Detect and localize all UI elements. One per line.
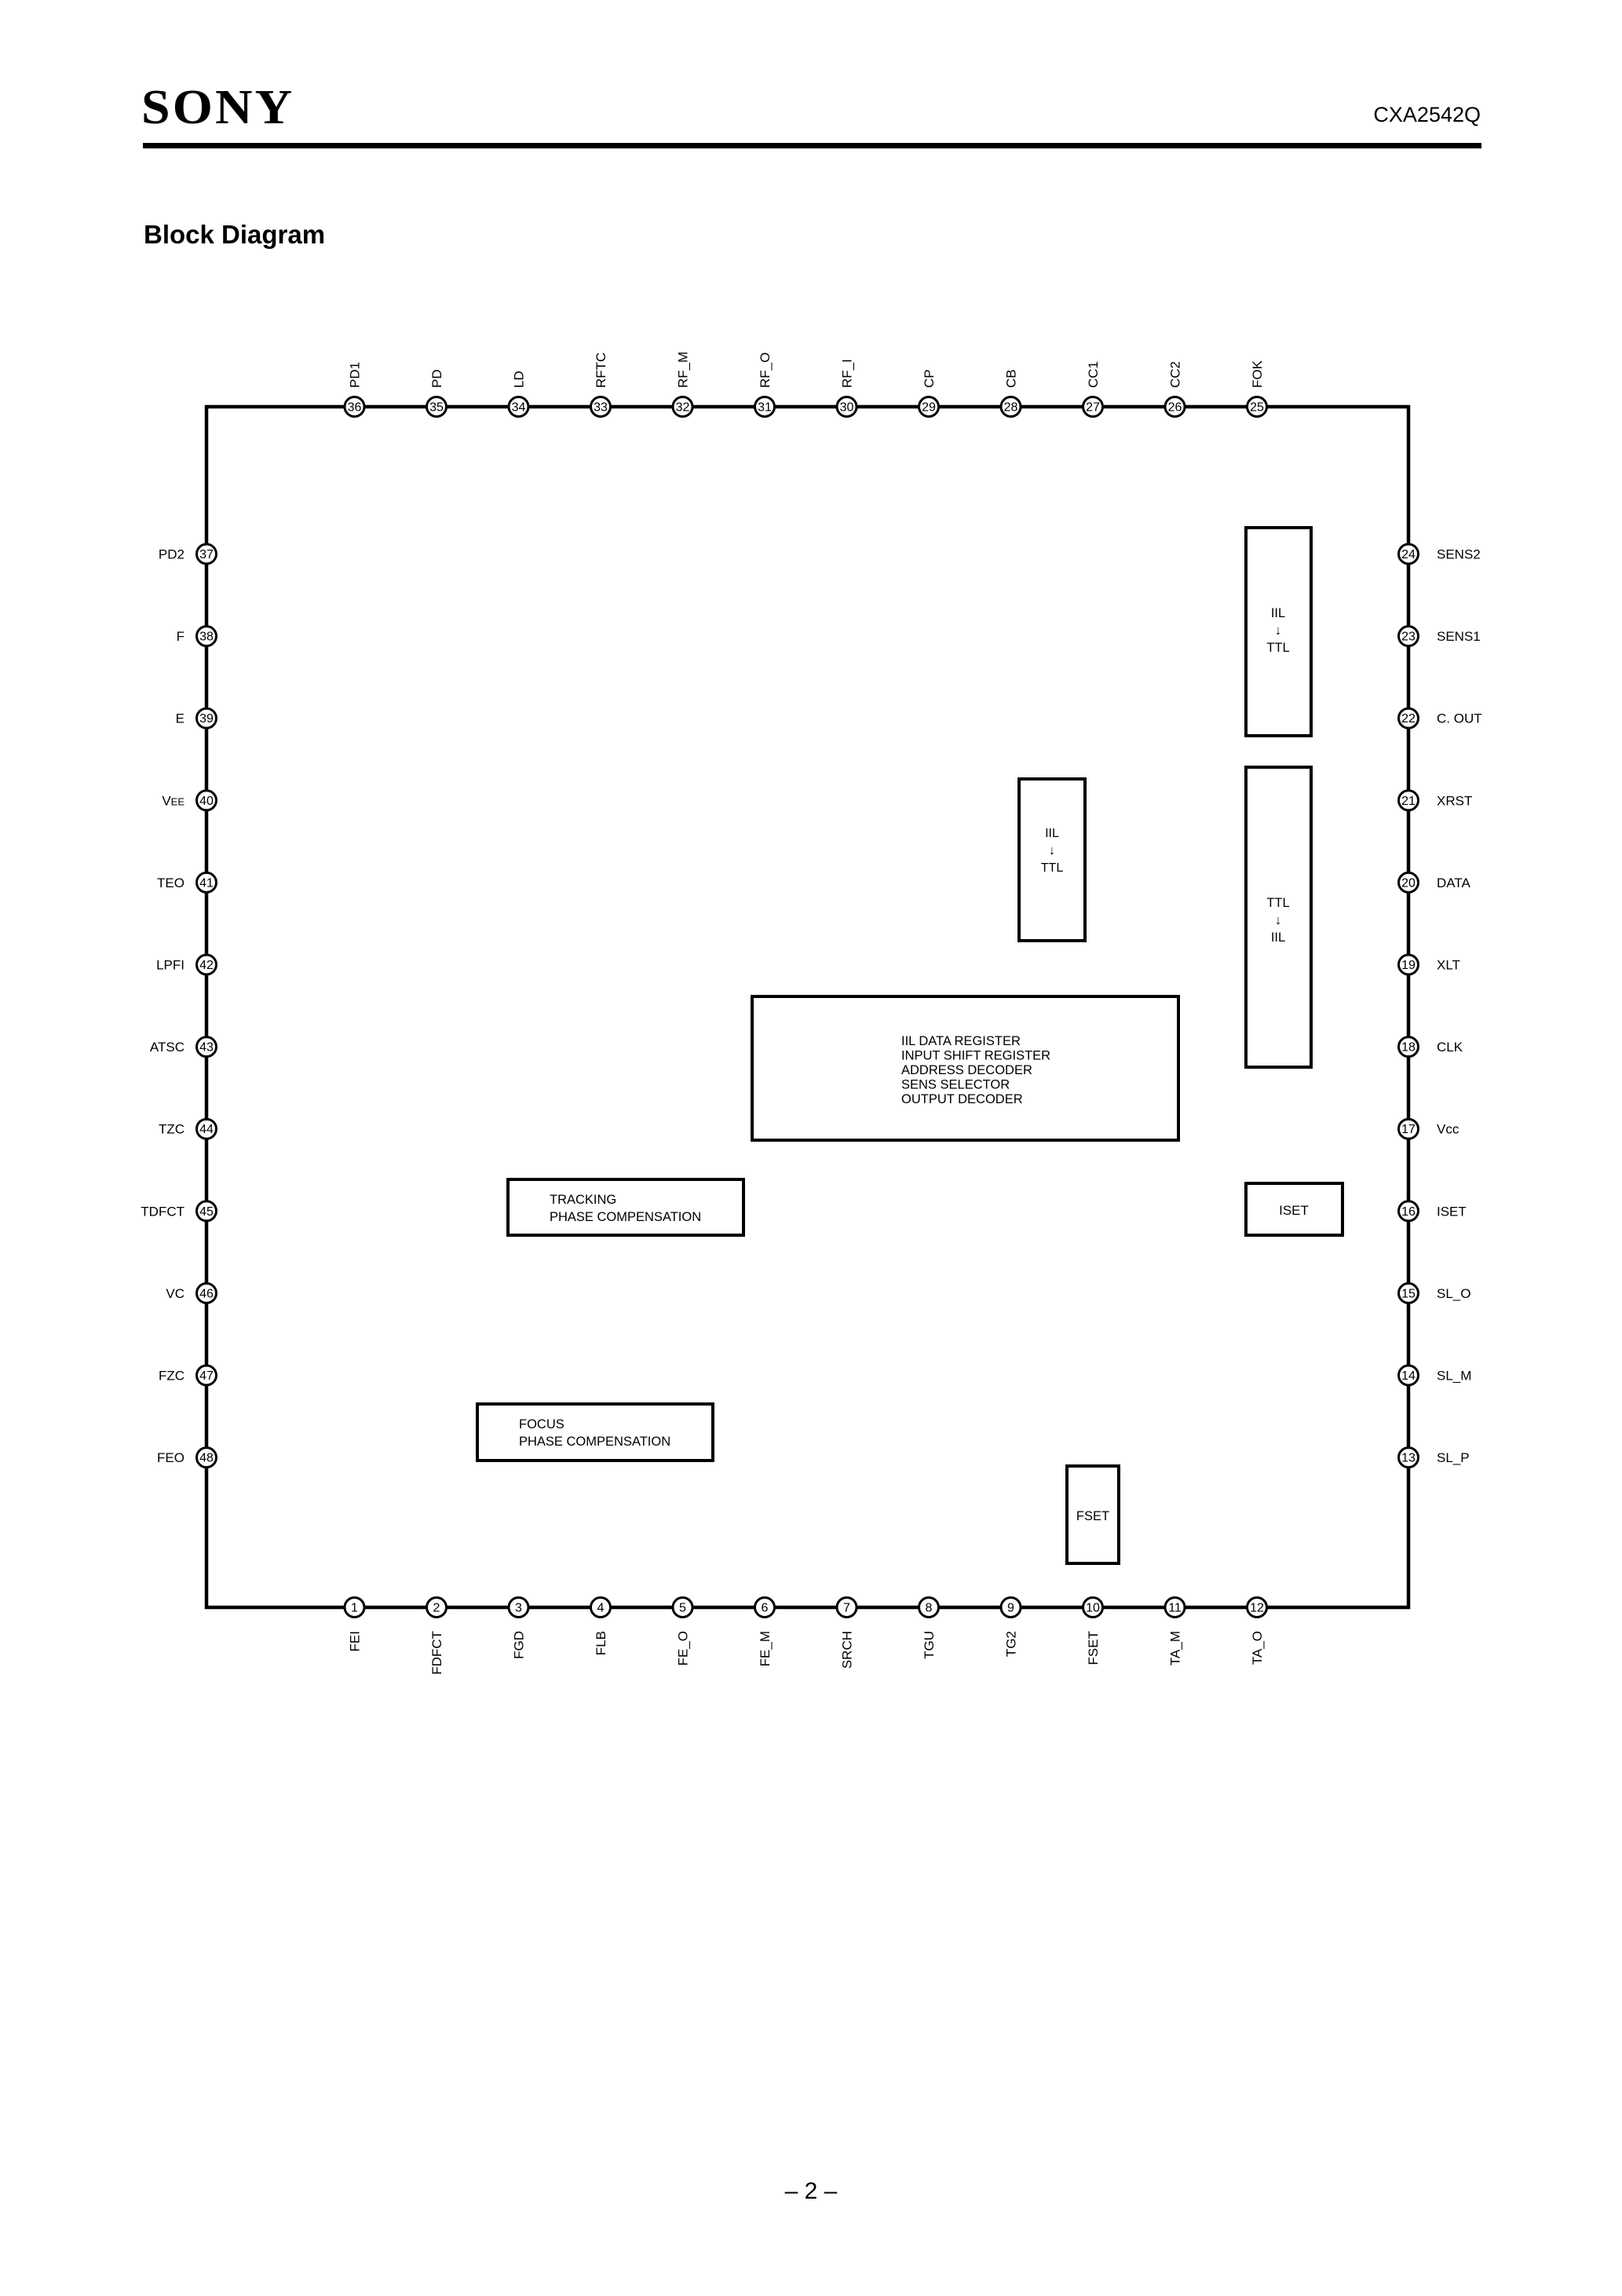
svg-text:44: 44 <box>199 1123 214 1136</box>
svg-text:CP: CP <box>922 369 937 388</box>
svg-text:CC2: CC2 <box>1168 361 1183 388</box>
svg-text:30: 30 <box>840 401 854 415</box>
svg-text:TRACKING: TRACKING <box>550 1193 616 1207</box>
svg-text:20: 20 <box>1401 876 1416 890</box>
svg-text:SRCH: SRCH <box>840 1631 855 1669</box>
svg-text:14: 14 <box>1401 1369 1416 1383</box>
svg-text:TA_M: TA_M <box>1168 1631 1183 1665</box>
svg-text:E: E <box>176 711 184 726</box>
svg-text:FSET: FSET <box>1076 1509 1109 1523</box>
svg-text:SENS SELECTOR: SENS SELECTOR <box>901 1078 1010 1092</box>
svg-text:ISET: ISET <box>1437 1204 1467 1219</box>
svg-text:LD: LD <box>512 371 527 388</box>
svg-text:39: 39 <box>199 712 214 726</box>
svg-text:10: 10 <box>1086 1602 1100 1615</box>
svg-text:4: 4 <box>597 1602 605 1615</box>
svg-text:PD1: PD1 <box>348 362 363 388</box>
svg-text:CB: CB <box>1004 369 1019 388</box>
svg-text:INPUT SHIFT REGISTER: INPUT SHIFT REGISTER <box>901 1049 1050 1063</box>
svg-text:CLK: CLK <box>1437 1040 1463 1055</box>
svg-text:RFTC: RFTC <box>594 353 608 388</box>
svg-text:48: 48 <box>199 1452 214 1465</box>
svg-text:ISET: ISET <box>1279 1203 1309 1218</box>
svg-text:27: 27 <box>1086 401 1100 415</box>
svg-text:C. OUT: C. OUT <box>1437 711 1482 726</box>
svg-text:2: 2 <box>433 1602 440 1615</box>
svg-text:FOCUS: FOCUS <box>519 1417 564 1431</box>
svg-text:↓: ↓ <box>1275 623 1281 638</box>
svg-text:TDFCT: TDFCT <box>141 1204 184 1219</box>
svg-text:SONY: SONY <box>141 80 294 134</box>
svg-text:IIL: IIL <box>1271 930 1285 945</box>
svg-text:RF_I: RF_I <box>840 359 855 388</box>
svg-text:12: 12 <box>1250 1602 1264 1615</box>
svg-text:31: 31 <box>758 401 772 415</box>
svg-text:VC: VC <box>166 1286 184 1301</box>
svg-text:TTL: TTL <box>1041 861 1064 875</box>
svg-text:25: 25 <box>1250 401 1264 415</box>
svg-text:FEI: FEI <box>348 1631 363 1651</box>
svg-text:DATA: DATA <box>1437 876 1470 890</box>
svg-text:FDFCT: FDFCT <box>429 1631 444 1675</box>
svg-text:26: 26 <box>1168 401 1182 415</box>
svg-text:34: 34 <box>512 401 526 415</box>
svg-text:FE_M: FE_M <box>758 1631 773 1666</box>
svg-text:PHASE COMPENSATION: PHASE COMPENSATION <box>519 1435 670 1449</box>
svg-text:FSET: FSET <box>1086 1631 1101 1665</box>
svg-text:FLB: FLB <box>594 1631 608 1655</box>
svg-text:36: 36 <box>348 401 362 415</box>
svg-text:Block Diagram: Block Diagram <box>144 220 325 249</box>
svg-text:5: 5 <box>679 1602 686 1615</box>
svg-text:3: 3 <box>515 1602 522 1615</box>
svg-text:SL_P: SL_P <box>1437 1450 1470 1465</box>
svg-text:PD: PD <box>429 369 444 388</box>
svg-text:24: 24 <box>1401 548 1416 561</box>
svg-text:FZC: FZC <box>159 1369 184 1384</box>
svg-text:13: 13 <box>1401 1452 1416 1465</box>
svg-text:– 2 –: – 2 – <box>785 2178 838 2204</box>
svg-text:40: 40 <box>199 795 214 808</box>
svg-text:OUTPUT DECODER: OUTPUT DECODER <box>901 1092 1023 1106</box>
svg-text:SL_O: SL_O <box>1437 1286 1470 1301</box>
svg-text:XRST: XRST <box>1437 793 1472 808</box>
svg-text:XLT: XLT <box>1437 958 1460 973</box>
svg-text:ATSC: ATSC <box>150 1040 184 1055</box>
svg-text:ADDRESS DECODER: ADDRESS DECODER <box>901 1063 1032 1077</box>
svg-text:TG2: TG2 <box>1004 1631 1019 1657</box>
svg-text:TGU: TGU <box>922 1631 937 1659</box>
svg-text:29: 29 <box>922 401 936 415</box>
svg-text:21: 21 <box>1401 795 1416 808</box>
svg-text:Vcc: Vcc <box>1437 1122 1459 1137</box>
svg-text:17: 17 <box>1401 1123 1416 1136</box>
svg-text:PD2: PD2 <box>159 547 184 562</box>
svg-text:38: 38 <box>199 631 214 644</box>
svg-text:32: 32 <box>676 401 690 415</box>
svg-text:23: 23 <box>1401 631 1416 644</box>
svg-text:IIL: IIL <box>1045 827 1059 840</box>
svg-text:15: 15 <box>1401 1287 1416 1300</box>
svg-text:TTL: TTL <box>1266 896 1289 910</box>
svg-text:FGD: FGD <box>512 1631 527 1659</box>
svg-text:FE_O: FE_O <box>676 1631 691 1665</box>
svg-text:SL_M: SL_M <box>1437 1369 1471 1384</box>
svg-text:22: 22 <box>1401 712 1416 726</box>
svg-text:FOK: FOK <box>1250 360 1265 388</box>
svg-text:VEE: VEE <box>162 793 184 808</box>
svg-text:46: 46 <box>199 1287 214 1300</box>
svg-text:6: 6 <box>762 1602 769 1615</box>
svg-text:LPFI: LPFI <box>156 958 184 973</box>
svg-text:F: F <box>177 629 184 644</box>
svg-text:RF_O: RF_O <box>758 353 773 388</box>
svg-text:19: 19 <box>1401 959 1416 972</box>
svg-text:42: 42 <box>199 959 214 972</box>
svg-text:FEO: FEO <box>157 1450 184 1465</box>
svg-text:9: 9 <box>1007 1602 1014 1615</box>
svg-text:1: 1 <box>351 1602 358 1615</box>
svg-text:37: 37 <box>199 548 214 561</box>
svg-text:11: 11 <box>1168 1602 1182 1615</box>
svg-text:8: 8 <box>926 1602 933 1615</box>
svg-text:IIL DATA REGISTER: IIL DATA REGISTER <box>901 1034 1021 1048</box>
svg-text:SENS2: SENS2 <box>1437 547 1481 562</box>
svg-text:↓: ↓ <box>1275 913 1281 927</box>
svg-text:43: 43 <box>199 1041 214 1055</box>
svg-text:28: 28 <box>1004 401 1018 415</box>
svg-text:PHASE COMPENSATION: PHASE COMPENSATION <box>550 1210 701 1224</box>
svg-text:45: 45 <box>199 1205 214 1219</box>
svg-text:33: 33 <box>594 401 608 415</box>
svg-text:TTL: TTL <box>1266 641 1289 655</box>
svg-text:47: 47 <box>199 1369 214 1383</box>
svg-text:IIL: IIL <box>1271 606 1285 620</box>
svg-text:CXA2542Q: CXA2542Q <box>1373 103 1481 126</box>
svg-text:7: 7 <box>843 1602 850 1615</box>
svg-text:TEO: TEO <box>157 876 184 890</box>
svg-text:↓: ↓ <box>1049 844 1055 857</box>
svg-text:SENS1: SENS1 <box>1437 629 1481 644</box>
svg-text:35: 35 <box>429 401 444 415</box>
svg-text:41: 41 <box>199 876 214 890</box>
svg-text:TA_O: TA_O <box>1250 1631 1265 1665</box>
svg-text:CC1: CC1 <box>1086 361 1101 388</box>
svg-text:16: 16 <box>1401 1205 1416 1219</box>
svg-text:TZC: TZC <box>159 1122 184 1137</box>
svg-text:RF_M: RF_M <box>676 352 691 388</box>
svg-text:18: 18 <box>1401 1041 1416 1055</box>
